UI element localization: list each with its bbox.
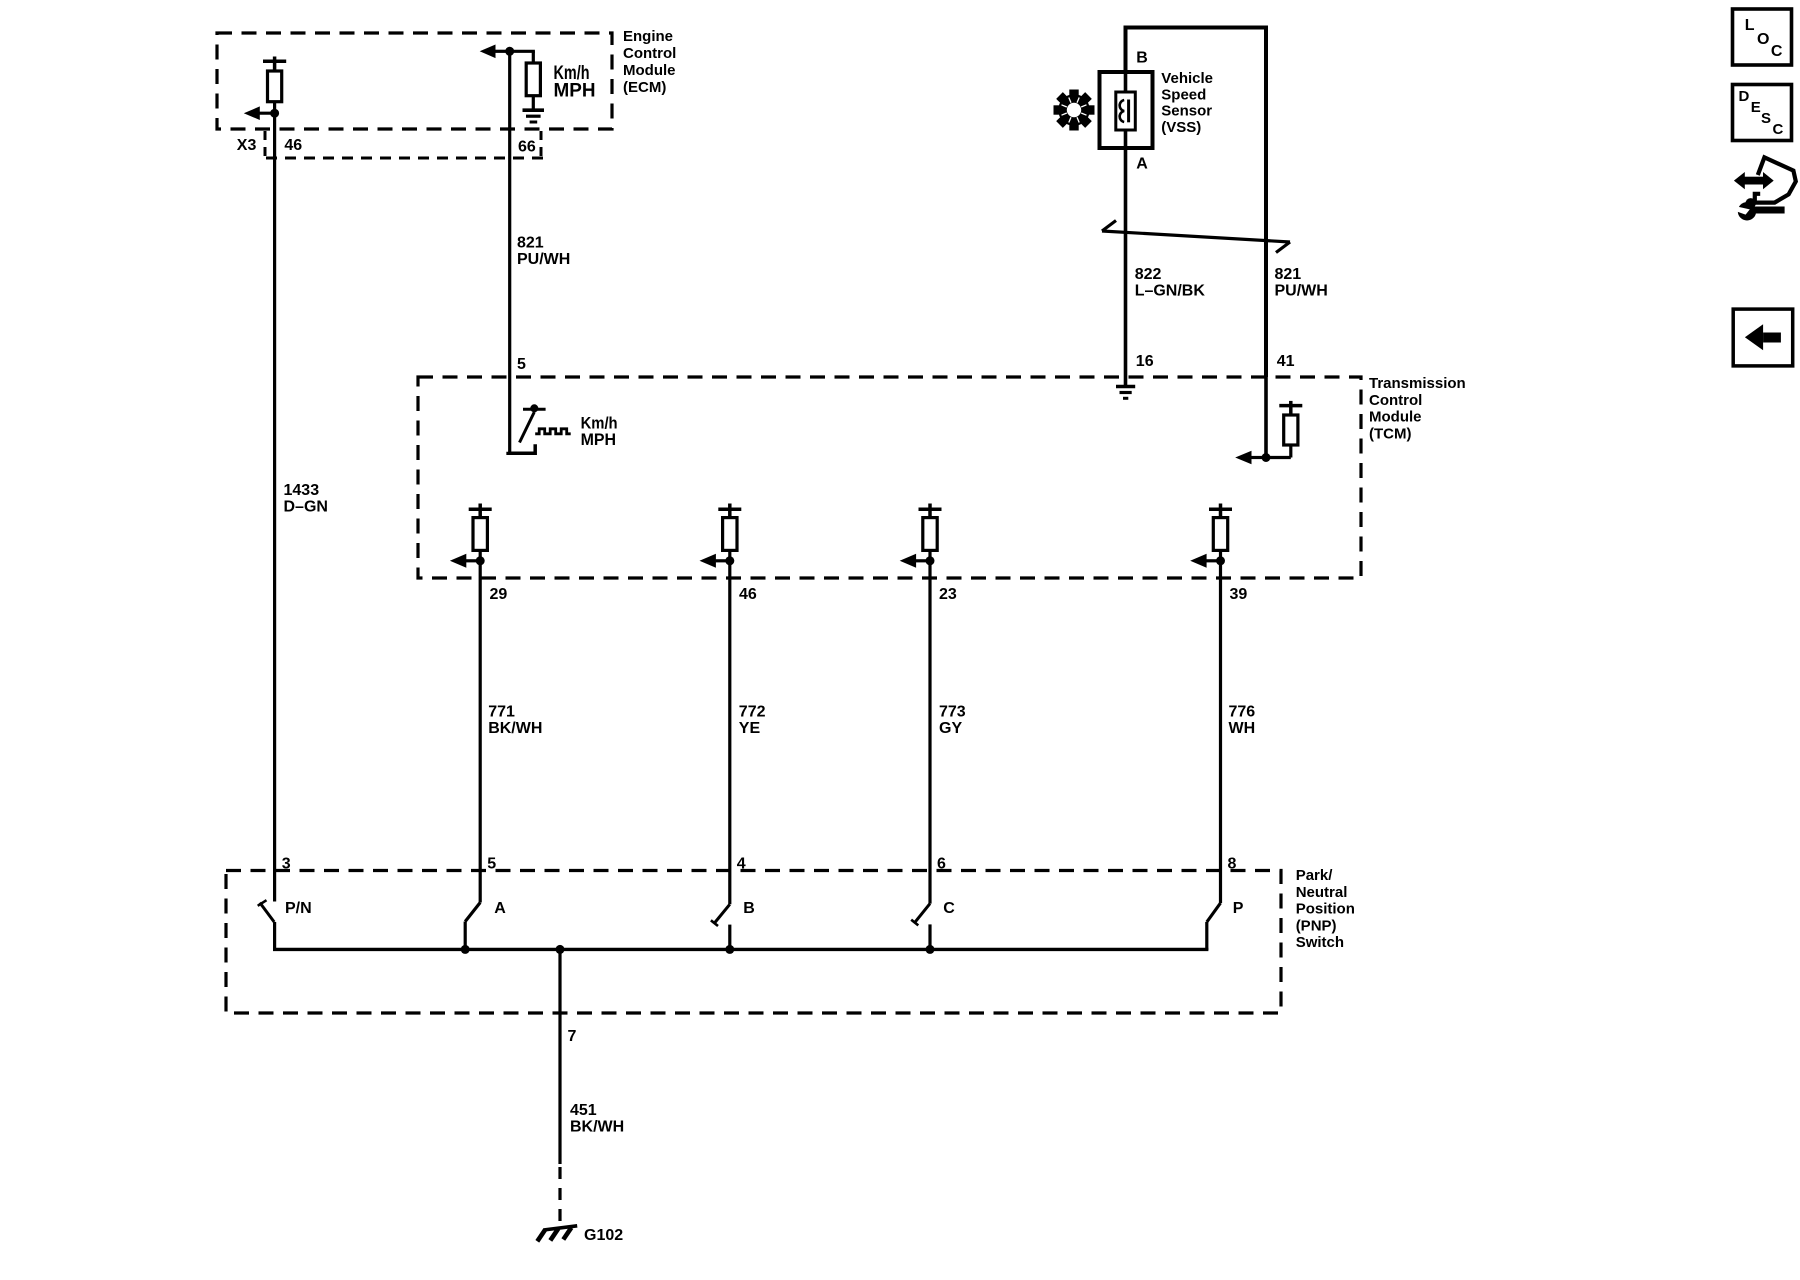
wire 1433 D-GN from ECM pin 46 to PNP pin 3	[273, 113, 276, 901]
svg-text:P/N: P/N	[285, 900, 312, 917]
switch contact C open	[911, 904, 930, 950]
switch contact P/N	[258, 900, 275, 950]
arrow signal TCM pin 46	[700, 554, 730, 568]
node junction dot TCM pin 39	[1216, 556, 1225, 565]
svg-text:C: C	[943, 900, 955, 917]
arrow signal to ECM pin 46	[244, 106, 275, 120]
label Km/h MPH at ECM	[554, 63, 596, 102]
svg-text:Engine: Engine	[623, 28, 673, 45]
label wire 451 BK/WH	[570, 1102, 624, 1136]
switch contact B open	[711, 904, 730, 949]
wire 451 BK/WH PNP pin 7 to ground	[558, 949, 561, 1164]
svg-text:BK/WH: BK/WH	[488, 720, 542, 737]
node junction dot TCM pin 46	[725, 556, 734, 565]
svg-text:O: O	[1757, 31, 1769, 48]
arrow signal TCM pin 29	[450, 554, 480, 568]
wire 772 YE TCM 46 to PNP 4	[728, 561, 731, 905]
svg-text:B: B	[1136, 50, 1148, 67]
label wire 821 PU/WH left	[517, 235, 570, 269]
wire TCM pin 41 internal	[1264, 377, 1268, 458]
wire dashed to G102	[558, 1167, 561, 1226]
svg-text:Neutral: Neutral	[1296, 884, 1348, 901]
svg-text:46: 46	[284, 137, 302, 154]
arrow signal TCM pin 23	[900, 554, 930, 568]
svg-text:MPH: MPH	[581, 430, 617, 449]
node junction dot bus pin 7	[556, 945, 565, 954]
node junction dot TCM pin 23	[926, 556, 935, 565]
TCM module label	[1369, 375, 1466, 442]
icon schematic jump arrows	[1734, 157, 1796, 202]
speed signal symbol TCM pin 5	[508, 404, 571, 453]
svg-text:773: 773	[939, 704, 966, 721]
resistor TCM pin 46	[718, 504, 741, 561]
icon wrench	[1735, 198, 1785, 220]
svg-text:771: 771	[488, 704, 515, 721]
svg-text:YE: YE	[739, 720, 761, 737]
ground internal ECM	[523, 110, 545, 122]
svg-text:Control: Control	[1369, 392, 1422, 409]
svg-text:41: 41	[1277, 353, 1295, 370]
svg-text:1433: 1433	[284, 482, 320, 499]
resistor TCM pin 29	[469, 504, 492, 561]
wire VSS A to TCM pin 16	[1124, 70, 1128, 387]
svg-text:29: 29	[490, 586, 508, 603]
svg-text:822: 822	[1135, 266, 1162, 283]
svg-text:Module: Module	[1369, 409, 1422, 426]
node junction dot switch B	[725, 945, 734, 954]
svg-text:C: C	[1771, 43, 1783, 60]
label wire 776 WH	[1229, 704, 1256, 738]
label Km/h MPH at TCM	[581, 413, 618, 449]
switch contact P closed	[1207, 903, 1221, 950]
svg-text:39: 39	[1230, 586, 1248, 603]
node junction dot switch C	[926, 945, 935, 954]
svg-text:451: 451	[570, 1102, 597, 1119]
svg-text:P: P	[1233, 900, 1244, 917]
node junction dot TCM pin 41	[1262, 453, 1271, 462]
vehicle speed sensor VSS box	[1100, 72, 1153, 148]
wire branch to ECM speed resistor	[510, 50, 535, 53]
PNP switch dashed box	[226, 871, 1281, 1014]
node junction dot ECM pin 46	[270, 109, 279, 118]
svg-text:Speed: Speed	[1161, 86, 1206, 103]
crossover indicator between VSS wires	[1102, 221, 1290, 253]
svg-text:B: B	[743, 900, 755, 917]
node junction dot switch A	[461, 945, 470, 954]
gear icon VSS	[1054, 90, 1095, 131]
svg-text:X3: X3	[237, 137, 257, 154]
label wire 821 PU/WH right	[1275, 266, 1328, 300]
svg-text:D: D	[1739, 88, 1750, 105]
svg-text:821: 821	[1275, 266, 1302, 283]
svg-text:G102: G102	[584, 1227, 623, 1244]
svg-text:PU/WH: PU/WH	[1275, 283, 1328, 300]
label wire 772 YE	[739, 704, 766, 738]
icon DESC button	[1733, 85, 1792, 141]
icon back arrow button	[1733, 309, 1793, 366]
svg-text:Sensor: Sensor	[1161, 103, 1212, 120]
resistor TCM pin 41 pull-up	[1266, 401, 1302, 458]
label wire 1433 D-GN	[284, 482, 328, 516]
wire 776 WH TCM 39 to PNP 8	[1219, 561, 1222, 903]
svg-text:821: 821	[517, 235, 544, 252]
svg-text:PU/WH: PU/WH	[517, 251, 570, 268]
ECM module dashed box	[217, 33, 612, 129]
svg-text:Control: Control	[623, 45, 676, 62]
svg-text:C: C	[1773, 121, 1784, 138]
svg-text:(VSS): (VSS)	[1161, 119, 1201, 136]
svg-text:L–GN/BK: L–GN/BK	[1135, 283, 1206, 300]
PNP switch label	[1296, 867, 1355, 951]
svg-text:Position: Position	[1296, 901, 1355, 918]
label wire 773 GY	[939, 704, 966, 738]
svg-text:GY: GY	[939, 720, 962, 737]
wire 771 BK/WH TCM 29 to PNP 5	[479, 561, 482, 903]
svg-text:5: 5	[517, 356, 526, 373]
svg-text:776: 776	[1229, 704, 1256, 721]
label wire 771 BK/WH	[488, 704, 542, 738]
arrow signal at ECM pin 66	[480, 45, 510, 59]
svg-text:66: 66	[518, 139, 536, 156]
svg-text:S: S	[1761, 110, 1771, 127]
ground G102	[537, 1226, 577, 1242]
svg-text:(TCM): (TCM)	[1369, 425, 1411, 442]
svg-text:7: 7	[568, 1028, 577, 1045]
VSS label	[1161, 70, 1213, 136]
svg-text:Transmission: Transmission	[1369, 375, 1466, 392]
svg-text:Module: Module	[623, 62, 676, 79]
svg-text:Vehicle: Vehicle	[1161, 70, 1213, 87]
svg-text:(PNP): (PNP)	[1296, 917, 1337, 934]
svg-text:D–GN: D–GN	[284, 499, 328, 516]
resistor ECM pin 46 pull-up	[263, 57, 286, 114]
svg-text:L: L	[1745, 17, 1755, 34]
resistor ECM Km/h MPH	[526, 51, 540, 108]
wire 821 PU/WH from ECM pin 66 to TCM pin 5	[508, 51, 511, 452]
connector X3 strip	[237, 131, 543, 158]
resistor TCM pin 39	[1209, 504, 1232, 561]
svg-text:WH: WH	[1229, 720, 1256, 737]
node junction dot ECM pin 66	[505, 47, 514, 56]
arrow signal TCM pin 41	[1235, 451, 1266, 465]
svg-text:A: A	[494, 900, 506, 917]
ground internal TCM pin 16	[1116, 387, 1135, 399]
svg-text:(ECM): (ECM)	[623, 79, 666, 96]
svg-text:MPH: MPH	[554, 81, 596, 102]
svg-text:23: 23	[939, 586, 957, 603]
arrow signal TCM pin 39	[1190, 554, 1220, 568]
icon LOC button	[1733, 9, 1792, 65]
label wire 822 L-GN/BK	[1135, 266, 1206, 300]
TCM module dashed box	[418, 377, 1361, 578]
svg-text:E: E	[1751, 99, 1761, 116]
svg-text:BK/WH: BK/WH	[570, 1119, 624, 1136]
switch contact A closed	[465, 903, 480, 950]
svg-text:46: 46	[739, 586, 757, 603]
resistor TCM pin 23	[919, 504, 942, 561]
node junction dot TCM pin 29	[476, 556, 485, 565]
svg-text:Switch: Switch	[1296, 934, 1344, 951]
svg-text:Park/: Park/	[1296, 867, 1334, 884]
wire VSS B loop to TCM pin 41	[1126, 28, 1267, 378]
wire common bus PNP	[273, 948, 1208, 951]
svg-text:772: 772	[739, 704, 766, 721]
wire 773 GY TCM 23 to PNP 6	[928, 561, 931, 904]
svg-text:5: 5	[487, 856, 496, 873]
svg-text:16: 16	[1136, 353, 1154, 370]
svg-text:A: A	[1136, 156, 1148, 173]
ECM module label	[623, 28, 676, 96]
